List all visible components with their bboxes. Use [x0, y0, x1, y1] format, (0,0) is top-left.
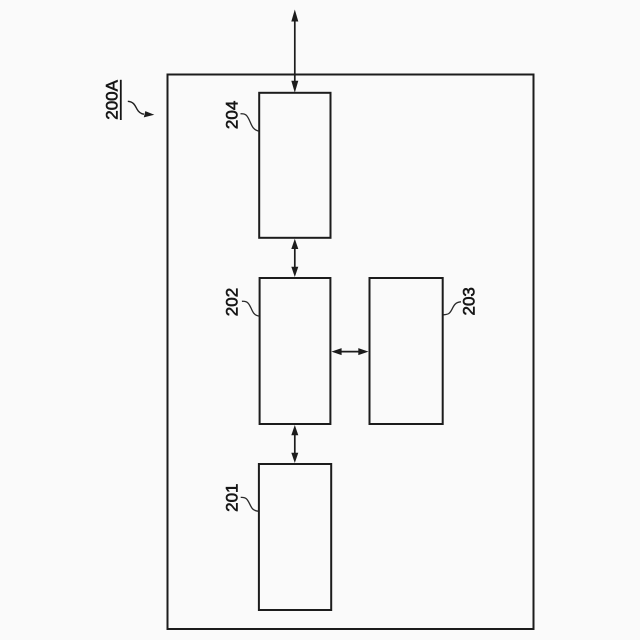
svg-text:200A: 200A [102, 79, 121, 119]
svg-text:203: 203 [460, 287, 479, 315]
svg-text:201: 201 [223, 484, 242, 512]
svg-text:202: 202 [223, 288, 242, 316]
svg-text:204: 204 [223, 101, 242, 129]
